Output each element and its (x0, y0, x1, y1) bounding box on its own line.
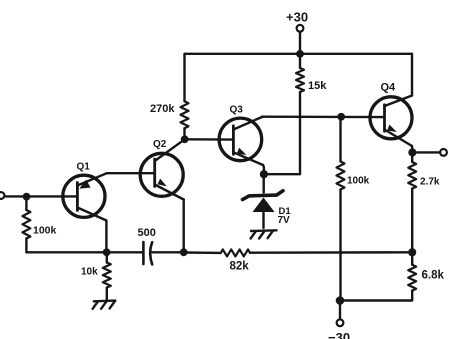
svg-text:−30: −30 (328, 330, 350, 339)
node Q4 emitter / output (408, 148, 416, 156)
node Q4 base / 100k (337, 113, 345, 121)
input terminal (0, 192, 4, 199)
wire node down to 100k (25, 197, 27, 210)
wire Q3 emitter to node (262, 165, 265, 174)
transistor Q1 (63, 173, 107, 220)
resistor 15k (296, 68, 304, 92)
node 82k / 2.7k / 6.8k (408, 248, 416, 256)
wire Q1 emitter down (105, 221, 107, 253)
svg-text:15k: 15k (308, 80, 327, 92)
node Q3 emitter / 15k / zener (260, 170, 268, 178)
wire 270k to top rail (185, 54, 413, 102)
wire Q1 collector to Q2 base (107, 172, 155, 174)
wire node to output terminal (412, 151, 440, 153)
node -30 (336, 296, 345, 305)
resistor 100k (input) (22, 210, 30, 239)
wire 15k down to Q3 emitter node (264, 92, 300, 174)
ground (under zener) (251, 230, 277, 238)
wire Q2 node to 82k (184, 251, 221, 254)
capacitor 500 (143, 242, 152, 264)
wire node to 10k (106, 252, 108, 262)
wire right node to 6.8k (411, 252, 413, 264)
wire cap right to Q2 node (152, 251, 184, 253)
wire 10k to ground (106, 288, 108, 301)
svg-text:10k: 10k (81, 267, 98, 278)
svg-text:Q2: Q2 (153, 139, 167, 150)
wire Q4 emitter down (411, 146, 414, 153)
wire input to Q1 base (5, 195, 78, 197)
wire +30 stub (299, 32, 301, 54)
ground (under 10k) (93, 301, 116, 309)
node +30 junction (296, 50, 304, 58)
wire cap left (107, 251, 144, 253)
svg-text:Q3: Q3 (230, 105, 244, 116)
wire 2.7k bottom to 82k node (411, 189, 413, 253)
wire 100k bottom to rail corner (26, 239, 106, 253)
svg-text:7V: 7V (278, 215, 291, 226)
resistor 2.7k (408, 162, 416, 189)
svg-text:+30: +30 (286, 10, 308, 25)
svg-text:100k: 100k (33, 225, 57, 237)
svg-text:82k: 82k (230, 261, 250, 273)
terminal +30 (297, 25, 304, 32)
transistor Q4 (370, 96, 412, 147)
wire Q4 collector to top rail (411, 54, 413, 96)
wire node up to 270k (183, 128, 185, 139)
wire +30 node to 15k (299, 54, 301, 68)
svg-text:Q4: Q4 (381, 82, 397, 94)
node Q2 emitter / cap / 82k (180, 248, 188, 256)
wire node down to 100k (339, 117, 341, 162)
svg-text:100k: 100k (347, 176, 370, 187)
node input/100k junction (23, 193, 31, 201)
resistor 6.8k (408, 265, 416, 291)
wire Q2 emitter down (182, 200, 184, 253)
resistor 82k (221, 249, 250, 256)
svg-text:Q1: Q1 (77, 162, 91, 173)
node Q1 emitter / 10k (103, 248, 111, 256)
transistor Q3 (219, 117, 263, 165)
svg-text:270k: 270k (150, 103, 175, 115)
wire -30 stub (339, 301, 341, 320)
resistor 270k (181, 101, 189, 128)
terminal -30 (337, 319, 344, 326)
transistor Q2 (140, 139, 185, 199)
wire node to Q3 base (185, 138, 234, 141)
wire 82k to right node (250, 251, 412, 254)
output terminal (440, 149, 447, 156)
wire Q3 collector to Q4 base (261, 115, 263, 118)
resistor 10k (103, 263, 111, 288)
svg-text:2.7k: 2.7k (420, 177, 440, 188)
wire 6.8k to bottom rail (340, 291, 412, 301)
resistor 100k (right) (337, 162, 345, 190)
wire node down to zener (263, 174, 265, 192)
node 270k / Q2 collector / Q3 base (181, 135, 189, 143)
wire node to 2.7k (411, 153, 413, 163)
svg-text:500: 500 (138, 227, 156, 239)
zener diode D1 (243, 191, 284, 228)
svg-text:6.8k: 6.8k (422, 270, 445, 282)
wire 100k bottom to -30 node (339, 190, 341, 301)
